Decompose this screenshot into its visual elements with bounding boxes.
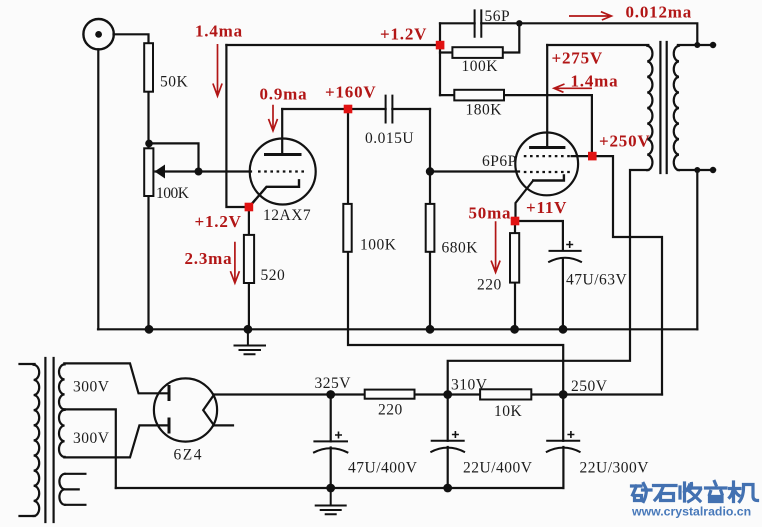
PT filament winding bbox=[59, 474, 65, 505]
svg-text:50ma: 50ma bbox=[469, 204, 512, 223]
red node squares bbox=[245, 41, 597, 226]
svg-text:2.3ma: 2.3ma bbox=[185, 249, 233, 268]
6Z4 anode bars bbox=[168, 387, 171, 433]
svg-text:310V: 310V bbox=[451, 377, 488, 394]
svg-text:6P6P: 6P6P bbox=[482, 153, 517, 170]
tube 6Z4 envelope bbox=[154, 378, 217, 441]
wire grid node to 6P6P grid bbox=[430, 170, 519, 172]
svg-text:50K: 50K bbox=[160, 74, 189, 91]
OPT primary winding bbox=[647, 46, 652, 170]
svg-text:300V: 300V bbox=[73, 379, 110, 396]
wire OPT secondary bottom to ground bus bbox=[696, 170, 698, 329]
wire 12AX7 cathode to 520 to ground bus bbox=[248, 211, 250, 329]
resistor 100K feedback body bbox=[452, 47, 502, 58]
svg-text:12AX7: 12AX7 bbox=[263, 207, 311, 224]
svg-text:1.4ma: 1.4ma bbox=[195, 22, 243, 41]
tube 12AX7 envelope bbox=[250, 139, 316, 205]
ground symbol main bbox=[234, 329, 267, 354]
6P6P screen dotted bbox=[524, 155, 572, 157]
svg-text:22U/400V: 22U/400V bbox=[463, 460, 533, 477]
wire electrolytic leads top bbox=[331, 395, 564, 442]
capacitor 47U/400V bbox=[313, 441, 348, 452]
wire 680K leads bbox=[429, 172, 431, 330]
arrow 0.012ma right bbox=[569, 12, 611, 20]
svg-text:10K: 10K bbox=[494, 403, 523, 420]
node +1.2V cathode bbox=[245, 203, 254, 212]
ground bus bbox=[98, 328, 697, 330]
wire cathode feedback riser x226 bbox=[226, 45, 245, 207]
capacitor 0.015U plates bbox=[386, 95, 393, 124]
red current arrows bbox=[213, 12, 612, 283]
6P6P cathode bar bbox=[533, 176, 564, 181]
svg-text:250V: 250V bbox=[571, 378, 608, 395]
6Z4 cathode stub bbox=[214, 424, 233, 426]
wire NFB top to OPT secondary bbox=[519, 23, 697, 45]
svg-text:100K: 100K bbox=[156, 185, 190, 202]
wire pot top tap to grid line bbox=[149, 143, 199, 171]
svg-text:0.015U: 0.015U bbox=[365, 130, 414, 147]
svg-text:www.crystalradio.cn: www.crystalradio.cn bbox=[631, 504, 751, 518]
arrow 0.9ma down bbox=[269, 105, 278, 131]
red labels bbox=[185, 3, 693, 269]
plus sign 47U/400V bbox=[335, 432, 342, 439]
svg-text:6Z4: 6Z4 bbox=[174, 447, 203, 464]
wire 47U/63V bottom lead bbox=[562, 260, 564, 330]
junction OPT secondary bottom / ground bbox=[694, 167, 700, 173]
capacitor 47U/63V bbox=[548, 251, 582, 262]
svg-text:+1.2V: +1.2V bbox=[380, 25, 427, 44]
junction 22U/400V to B- bus bbox=[443, 484, 452, 493]
svg-text:100K: 100K bbox=[462, 58, 499, 75]
svg-text:56P: 56P bbox=[485, 8, 511, 25]
resistor 100K plate load body bbox=[343, 204, 351, 252]
resistor 220 filter body bbox=[365, 390, 415, 399]
svg-text:0.9ma: 0.9ma bbox=[260, 85, 308, 104]
PT primary leads bbox=[20, 364, 35, 516]
12AX7 plate bar bbox=[266, 153, 301, 156]
svg-text:47U/63V: 47U/63V bbox=[566, 272, 628, 289]
wire 6P6P plate lead up bbox=[546, 45, 548, 148]
node 310V bbox=[443, 390, 452, 399]
node 250V bbox=[559, 390, 568, 399]
terminal OPT secondary top bbox=[710, 42, 716, 48]
wire coupling cap down to grid node bbox=[429, 109, 431, 172]
PT secondary 300V upper winding bbox=[59, 364, 65, 409]
svg-text:300V: 300V bbox=[73, 430, 110, 447]
PT secondary 300V lower winding bbox=[59, 410, 65, 457]
capacitor 22U/400V bbox=[430, 441, 465, 452]
svg-text:+160V: +160V bbox=[325, 83, 376, 102]
junction pot top / 50K bottom bbox=[145, 140, 153, 148]
plus sign 22U/300V bbox=[567, 431, 574, 438]
watermark text 矿石收音机 bbox=[632, 482, 758, 502]
wire electrolytic leads bottom bbox=[331, 447, 564, 488]
wire +1.2V node riser x440 bbox=[439, 23, 441, 95]
junction 47U/63V to ground bus bbox=[559, 325, 568, 334]
resistor 220 cathode body bbox=[510, 233, 519, 283]
wire jack down to ground bus bbox=[97, 49, 99, 329]
6P6P plate bar bbox=[531, 146, 564, 149]
PT center tap down bbox=[64, 409, 116, 488]
input jack bbox=[83, 19, 113, 49]
wire 56P left and right bbox=[440, 22, 519, 24]
terminal OPT secondary bottom bbox=[710, 167, 716, 173]
wire 100K plate load leads + 250V feed (wire A) bbox=[348, 114, 563, 395]
PT core bbox=[45, 358, 53, 522]
wire 180K leads to screen node bbox=[440, 95, 592, 152]
arrow 2.3ma down bbox=[230, 242, 239, 283]
wire 12AX7 plate lead up bbox=[281, 109, 283, 154]
resistor 520 body bbox=[244, 235, 254, 283]
capacitor 56P plates bbox=[475, 9, 482, 37]
6P6P control grid dotted bbox=[524, 171, 572, 173]
PT primary winding bbox=[34, 365, 40, 516]
junction 520 to ground bus bbox=[244, 325, 253, 334]
PT secondary bottom lead to 6Z4 anode bbox=[64, 425, 169, 457]
svg-text:220: 220 bbox=[477, 277, 502, 294]
wire OPT primary bottom to 310V (wire B) bbox=[448, 170, 649, 395]
arrow 50ma down bbox=[491, 221, 500, 272]
junction pot wiper to grid wire bbox=[195, 168, 203, 176]
bottom B- bus bbox=[116, 487, 564, 489]
svg-text:325V: 325V bbox=[315, 375, 352, 392]
12AX7 cathode bbox=[250, 180, 300, 206]
wire OPT secondary leads bbox=[678, 45, 715, 170]
node +11V cathode bbox=[511, 217, 520, 226]
arrow 1.4ma down bbox=[213, 44, 222, 96]
junction OPT secondary top / NFB bbox=[694, 42, 700, 48]
potentiometer 100K body bbox=[144, 148, 153, 196]
arrow 1.4ma left bbox=[554, 84, 592, 92]
PT filament leads bbox=[65, 474, 85, 505]
node +160V plate bbox=[344, 105, 353, 114]
junction 680K to ground bus bbox=[426, 325, 435, 334]
junction 56P-100K to NFB wire bbox=[516, 20, 522, 26]
potentiometer arrow bbox=[155, 165, 166, 179]
resistor bodies bbox=[144, 43, 531, 399]
wire jack to 50K top bbox=[114, 34, 149, 43]
black labels bbox=[73, 8, 649, 477]
svg-text:47U/400V: 47U/400V bbox=[348, 460, 418, 477]
wire 6P6P cathode down bbox=[516, 181, 534, 218]
svg-text:100K: 100K bbox=[360, 237, 397, 254]
wire 100K feedback leads bbox=[440, 23, 519, 52]
tube 6P6P envelope bbox=[515, 133, 578, 196]
PT secondary top lead to 6Z4 anode bbox=[64, 363, 169, 393]
resistor 50K body bbox=[144, 43, 153, 91]
svg-text:680K: 680K bbox=[442, 240, 479, 257]
junction pot to ground bus bbox=[145, 325, 154, 334]
svg-text:22U/300V: 22U/300V bbox=[580, 460, 650, 477]
svg-text:180K: 180K bbox=[466, 102, 503, 119]
OPT secondary winding bbox=[674, 46, 679, 170]
wire 50K bottom to pot top bbox=[147, 92, 149, 149]
6Z4 cathode chevron bbox=[203, 395, 214, 426]
wire cathode node to 220 and bus bbox=[514, 225, 516, 329]
wire +11V to 47U/63V cap bbox=[519, 221, 563, 250]
wire +250V routing bbox=[597, 156, 662, 394]
capacitor 22U/300V bbox=[546, 441, 581, 452]
OPT core bbox=[660, 42, 666, 173]
resistor 10K body bbox=[480, 389, 531, 399]
svg-text:1.4ma: 1.4ma bbox=[571, 72, 619, 91]
junction coupling cap / 680K / 6P6P grid bbox=[426, 167, 434, 175]
svg-text:0.012ma: 0.012ma bbox=[626, 3, 693, 22]
12AX7 grid dotted bbox=[258, 170, 306, 172]
svg-text:220: 220 bbox=[378, 402, 403, 419]
junction 220 cathode R to ground bus bbox=[510, 325, 519, 334]
svg-text:+1.2V: +1.2V bbox=[195, 212, 242, 231]
wire screen to red node bbox=[572, 155, 588, 157]
wire pot bottom to ground bus bbox=[147, 196, 149, 329]
node +1.2V feedback bbox=[436, 41, 445, 50]
svg-text:+250V: +250V bbox=[599, 132, 650, 151]
wire OPT primary top bbox=[547, 44, 648, 46]
junction 47U/400V to B- bus bbox=[326, 484, 335, 493]
B+ rail 325V-310V-250V bbox=[214, 393, 662, 395]
wire +160V line to coupling cap bbox=[282, 108, 430, 110]
ground symbol supply bbox=[315, 488, 347, 514]
resistor 180K body bbox=[454, 90, 504, 101]
resistor 680K body bbox=[426, 204, 435, 252]
svg-text:+275V: +275V bbox=[552, 49, 603, 68]
svg-text:+11V: +11V bbox=[526, 198, 567, 217]
wire grid 12AX7 bbox=[156, 170, 252, 172]
node 325V bbox=[326, 390, 335, 399]
node +250V screen bbox=[588, 152, 597, 161]
plus sign 22U/400V bbox=[452, 431, 459, 438]
plus sign 47U/63V bbox=[566, 241, 573, 248]
svg-text:520: 520 bbox=[261, 267, 286, 284]
wire top y45 to +1.2V node bbox=[226, 44, 436, 46]
